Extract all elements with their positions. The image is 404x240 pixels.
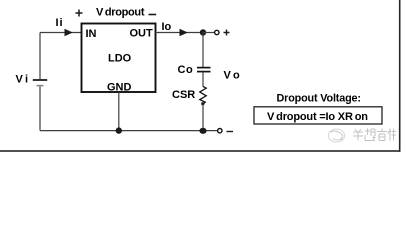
box Vdropout formula frame	[254, 107, 382, 124]
op-amp U1 LDO box	[82, 24, 156, 93]
svg-text:Io: Io	[162, 21, 172, 33]
wire input (Vi to IN)	[40, 32, 81, 34]
watermark text (CJK glyph strokes)	[353, 129, 396, 141]
resistor CSR	[200, 86, 206, 104]
wire GND stub	[118, 92, 120, 130]
svg-text:CSR: CSR	[172, 89, 195, 101]
label - (output polarity)	[227, 131, 234, 133]
wire CSR to bottom rail	[202, 104, 204, 130]
svg-text:V dropout: V dropout	[96, 7, 145, 19]
terminal output +	[215, 30, 219, 34]
svg-text:LDO: LDO	[108, 52, 132, 64]
wire Co to CSR	[202, 72, 204, 87]
arrow Io current direction	[180, 29, 188, 36]
wire Vi branch vertical top	[39, 33, 41, 80]
svg-text:Ii: Ii	[56, 17, 64, 29]
wire output (OUT to node A)	[156, 32, 204, 34]
wire Vi branch vertical bottom	[39, 86, 41, 130]
battery Vi negative plate	[37, 85, 44, 87]
capacitor Co	[197, 68, 211, 72]
svg-text:V o: V o	[224, 70, 241, 82]
node A junction dot	[200, 29, 206, 35]
svg-text:V i: V i	[16, 73, 29, 85]
junction CSR-rail dot	[199, 128, 206, 134]
svg-text:Co: Co	[178, 64, 194, 76]
junction GND-rail dot	[116, 127, 122, 133]
wire bottom rail	[40, 130, 217, 132]
watermark logo swirl	[328, 129, 344, 142]
arrow Ii current direction	[65, 29, 73, 36]
wire node A down to Co	[202, 33, 204, 68]
battery Vi positive plate	[33, 79, 47, 81]
svg-text:V dropout =Io XR on: V dropout =Io XR on	[267, 111, 368, 123]
svg-text:GND: GND	[107, 82, 132, 94]
label + (output polarity)	[224, 30, 230, 36]
label + (Vdropout plus sign)	[76, 10, 83, 17]
frame right border line	[399, 0, 401, 152]
terminal output -	[218, 129, 222, 133]
svg-text:OUT: OUT	[130, 28, 154, 40]
svg-text:Dropout Voltage:: Dropout Voltage:	[277, 93, 362, 105]
svg-text:IN: IN	[86, 28, 97, 40]
resistor CSR end blob	[201, 102, 204, 105]
frame bottom border line	[0, 150, 400, 152]
wire node A to output terminal	[203, 32, 214, 34]
label - (Vdropout minus sign)	[149, 14, 157, 16]
